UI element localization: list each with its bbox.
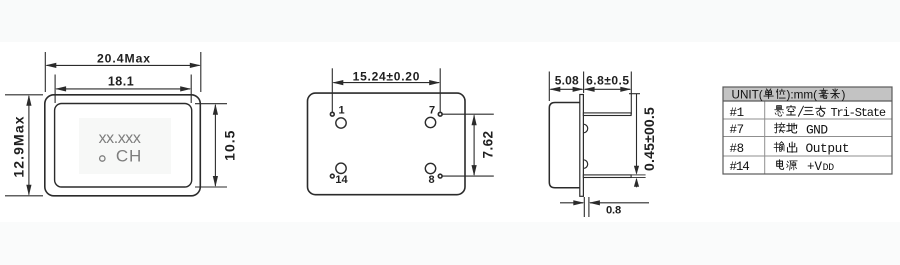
logo circle (100, 156, 105, 161)
svg-text:+V: +V (807, 160, 823, 174)
dimension 12.9Max (5, 95, 43, 196)
svg-text:10.5: 10.5 (222, 130, 238, 161)
dimension 20.4Max (45, 52, 201, 92)
svg-text:):mm(: ):mm( (787, 89, 818, 102)
svg-text:7.62: 7.62 (481, 131, 496, 159)
svg-text:12.9Max: 12.9Max (11, 115, 27, 177)
bottom lead (583, 175, 631, 178)
svg-text:GND: GND (806, 123, 828, 138)
dimension 15.24±0.20 (332, 68, 440, 112)
svg-text:#1: #1 (730, 106, 744, 120)
pin 8 pad (425, 163, 435, 173)
dimension 0.8 (560, 197, 649, 217)
svg-text:5.08: 5.08 (555, 74, 579, 88)
svg-text:#14: #14 (730, 160, 750, 174)
svg-text:#8: #8 (730, 142, 744, 156)
label plate tint (79, 118, 171, 174)
svg-text:6.8±0.5: 6.8±0.5 (586, 74, 629, 88)
mounting plate (580, 95, 584, 197)
svg-text:Output: Output (806, 141, 850, 156)
dimension 7.62 (443, 114, 494, 176)
dimension 6.8±0.5 (585, 72, 632, 115)
package inner outline (55, 104, 192, 188)
pin 14 leader dot (330, 174, 334, 178)
svg-text:7: 7 (429, 105, 435, 117)
table header background (723, 87, 892, 101)
dimension 0.45±00.5 (629, 94, 640, 188)
pin 1 pad (336, 118, 346, 128)
svg-text:0.8: 0.8 (606, 205, 621, 217)
svg-text:1: 1 (338, 104, 344, 116)
pin 7 pad (425, 117, 435, 127)
package body side (549, 103, 580, 188)
svg-text:20.4Max: 20.4Max (97, 52, 151, 66)
dimension 18.1 (55, 75, 191, 104)
svg-text:UNIT(: UNIT( (732, 89, 763, 102)
weld bump bottom (583, 160, 587, 169)
svg-text:18.1: 18.1 (108, 75, 134, 89)
bottom lead extension lines (631, 175, 646, 178)
svg-text:Tri-State: Tri-State (831, 106, 886, 120)
svg-text:14: 14 (335, 174, 348, 186)
table borders (723, 101, 892, 174)
dimension 10.5 (195, 104, 227, 187)
package bottom outline (308, 93, 466, 195)
pin 14 pad (336, 163, 346, 173)
svg-text:#7: #7 (730, 123, 744, 137)
pin 1 leader dot (330, 112, 334, 116)
svg-text:): ) (842, 89, 846, 102)
pin 7 leader dot (438, 112, 442, 116)
svg-text:CH: CH (116, 147, 142, 166)
pin 8 leader dot (438, 174, 442, 178)
weld bump top (583, 124, 587, 133)
svg-text:8: 8 (428, 174, 434, 186)
svg-text:0.45±00.5: 0.45±00.5 (641, 107, 657, 171)
svg-text:15.24±0.20: 15.24±0.20 (353, 69, 420, 83)
svg-text:DD: DD (823, 162, 835, 173)
package outer outline (45, 95, 201, 196)
top lead (583, 113, 631, 116)
svg-text:xx.xxx: xx.xxx (99, 130, 141, 147)
dimension 5.08 (549, 72, 583, 102)
